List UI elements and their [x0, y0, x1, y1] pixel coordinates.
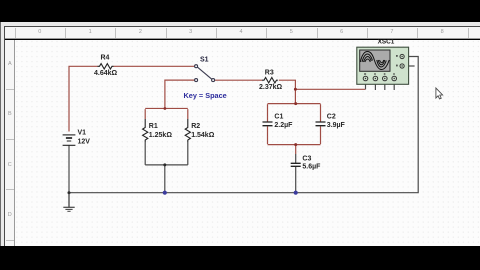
svg-text:S1: S1	[200, 56, 209, 63]
svg-text:12V: 12V	[78, 138, 91, 145]
svg-text:C1: C1	[274, 114, 283, 121]
svg-text:2.37kΩ: 2.37kΩ	[259, 84, 283, 91]
svg-text:3.9µF: 3.9µF	[327, 122, 346, 129]
svg-text:C2: C2	[327, 114, 336, 121]
svg-text:R4: R4	[101, 55, 110, 62]
svg-text:V1: V1	[78, 129, 87, 136]
svg-text:5.6µF: 5.6µF	[302, 164, 321, 171]
svg-text:1.54kΩ: 1.54kΩ	[191, 132, 215, 139]
svg-text:R2: R2	[191, 123, 200, 130]
svg-text:2.2µF: 2.2µF	[274, 122, 293, 129]
svg-text:4.64kΩ: 4.64kΩ	[94, 70, 118, 77]
svg-text:R3: R3	[265, 70, 274, 77]
svg-text:R1: R1	[149, 123, 158, 130]
svg-text:XSC1: XSC1	[378, 39, 395, 46]
svg-text:1.25kΩ: 1.25kΩ	[149, 132, 173, 139]
svg-text:C3: C3	[302, 156, 311, 163]
svg-text:Key = Space: Key = Space	[184, 91, 227, 100]
